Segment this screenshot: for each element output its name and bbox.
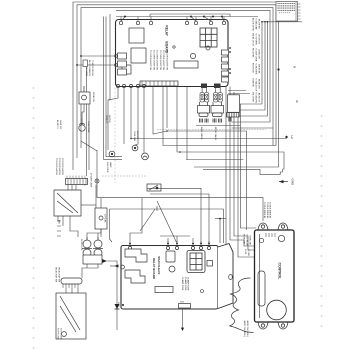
ignitor block 1 xyxy=(201,84,207,89)
wire fan 1 xyxy=(167,131,247,230)
svg-text:40 WATT LAMP: 40 WATT LAMP xyxy=(90,173,93,188)
wire board left stubs xyxy=(81,55,114,57)
component box F xyxy=(95,208,107,229)
svg-text:BK-RD GY: BK-RD GY xyxy=(258,93,260,103)
svg-text:TO SELECTOR: TO SELECTOR xyxy=(255,78,257,92)
label TS1 xyxy=(87,121,89,133)
wire diode run xyxy=(116,263,118,330)
svg-text:LIGHT SW: LIGHT SW xyxy=(59,120,61,129)
wire fan 3 xyxy=(174,145,276,147)
svg-text:TO OVEN LIGHT SW: TO OVEN LIGHT SW xyxy=(166,50,168,70)
wire bus 3 xyxy=(81,8,273,148)
maxi bottom connector xyxy=(179,302,191,309)
wire latch out xyxy=(57,216,59,221)
wire maxi feed 3 xyxy=(176,236,178,244)
wire drop C xyxy=(234,92,255,250)
wire lamp stem xyxy=(97,150,263,221)
maxi board outline xyxy=(121,244,233,310)
wire maxi right stub xyxy=(219,218,221,243)
svg-text:GY-RD CN3: GY-RD CN3 xyxy=(249,235,251,245)
node N xyxy=(277,66,296,71)
control inner edge xyxy=(259,234,261,318)
maxi board title xyxy=(152,256,161,279)
svg-text:RD-BK WH: RD-BK WH xyxy=(258,79,260,89)
label latch text xyxy=(55,158,64,175)
svg-text:COOL FAN: COOL FAN xyxy=(133,131,136,142)
svg-text:TO BLK WIRE AT: TO BLK WIRE AT xyxy=(269,202,272,219)
svg-text:15 AMP FUSE: 15 AMP FUSE xyxy=(181,277,184,291)
control ear TR xyxy=(278,223,288,230)
maxi small circle xyxy=(201,290,204,293)
wire mid drop 2 xyxy=(123,88,125,144)
svg-text:TO BK WIRE: TO BK WIRE xyxy=(255,63,257,75)
wire bus 7 xyxy=(232,21,268,116)
svg-text:N: N xyxy=(293,66,297,68)
relay board text block xyxy=(149,50,168,70)
svg-text:GY-RD WH: GY-RD WH xyxy=(258,49,260,59)
wire T3 top xyxy=(97,233,99,240)
wire left diag xyxy=(81,141,97,151)
svg-text:MOTOR: MOTOR xyxy=(136,131,138,139)
svg-text:BAKE VALVE: BAKE VALVE xyxy=(200,127,203,140)
wire fan 6 xyxy=(194,166,279,168)
component circle small xyxy=(173,46,175,48)
svg-text:GRD: GRD xyxy=(117,302,119,307)
svg-text:TO BROIL RD-WH: TO BROIL RD-WH xyxy=(91,60,93,76)
maxi relay K4 xyxy=(166,251,175,262)
svg-text:BK-WH OR RD: BK-WH OR RD xyxy=(252,18,254,32)
maxi transformer xyxy=(187,251,205,273)
wire to maxi 2 xyxy=(192,238,194,241)
label far left xyxy=(56,120,61,129)
wire squiggle xyxy=(230,278,254,333)
wire fan 5 xyxy=(186,159,244,161)
svg-text:TO DOOR LATCH: TO DOOR LATCH xyxy=(55,158,58,175)
svg-text:BK-WH RD: BK-WH RD xyxy=(258,19,260,29)
wire fan 2 xyxy=(131,138,287,140)
transformer T3 xyxy=(93,237,103,257)
svg-text:GY-BK RD: GY-BK RD xyxy=(252,78,254,88)
relay board bottom terminals xyxy=(116,84,145,87)
wire bus N xyxy=(77,5,276,158)
ignitor module P3 xyxy=(214,88,218,102)
wire drop A xyxy=(225,87,227,247)
maxi label bar xyxy=(155,287,173,293)
relay board left connector xyxy=(115,53,127,75)
wire diag 1 xyxy=(140,209,155,231)
svg-text:40W OVEN: 40W OVEN xyxy=(106,162,108,173)
ignitor module P2 xyxy=(205,88,209,102)
node L2 xyxy=(285,136,294,140)
svg-text:3c: 3c xyxy=(295,100,299,104)
wire J3 to door xyxy=(65,288,67,293)
svg-text:BU-WH OR: BU-WH OR xyxy=(252,63,254,73)
svg-text:TO LWR OVEN: TO LWR OVEN xyxy=(255,48,257,62)
wire top jogs xyxy=(191,17,196,22)
wire S1 run3 xyxy=(147,188,201,243)
maxi heatsink 1 xyxy=(125,249,147,262)
wire fan 7 xyxy=(203,169,283,175)
svg-text:SWITCH: SWITCH xyxy=(108,115,110,123)
control circle big xyxy=(267,300,287,320)
svg-text:L1 RD-BK: L1 RD-BK xyxy=(104,214,106,223)
svg-text:RELAY BOARD: RELAY BOARD xyxy=(152,258,156,279)
label door box xyxy=(70,302,76,317)
wire left pair xyxy=(104,17,123,160)
svg-text:TO OVEN LIGHT SW: TO OVEN LIGHT SW xyxy=(159,50,161,70)
terminal block TB1 xyxy=(261,2,302,23)
wire run y211b xyxy=(156,206,158,211)
lamp PL1 xyxy=(109,151,115,157)
wire bus 6 xyxy=(232,21,266,110)
svg-text:TO L1 BK-WH: TO L1 BK-WH xyxy=(246,234,248,247)
wire I to diode xyxy=(107,261,117,263)
latch box xyxy=(54,190,81,216)
switch S1 xyxy=(147,184,161,191)
svg-text:(MOD CLK WHL): (MOD CLK WHL) xyxy=(246,321,248,337)
maxi top terminals xyxy=(128,241,210,250)
diode CR1 xyxy=(115,304,120,309)
label F col xyxy=(104,214,106,223)
svg-text:TO CN1 PIN: TO CN1 PIN xyxy=(255,92,257,103)
svg-text:OR-WH GY: OR-WH GY xyxy=(258,34,260,45)
control circle small xyxy=(278,235,284,241)
wire fan 3b xyxy=(272,128,274,146)
wire crease xyxy=(114,88,116,183)
svg-text:OVEN TEMP: OVEN TEMP xyxy=(87,121,89,133)
oven door box xyxy=(56,293,86,339)
control box outline xyxy=(255,230,295,322)
label control left xyxy=(243,234,251,247)
svg-text:CONTROL: CONTROL xyxy=(278,263,282,280)
maxi circle xyxy=(169,266,175,272)
wire bus L1 xyxy=(73,2,279,170)
wire to maxi 1 xyxy=(130,198,142,241)
wire mid drop 5 xyxy=(143,88,145,153)
label valves xyxy=(200,127,217,141)
label ctl left xyxy=(244,249,249,256)
svg-text:WH-RD BK: WH-RD BK xyxy=(258,64,260,74)
wire left v2 xyxy=(88,92,90,170)
relay board outline xyxy=(116,20,229,87)
svg-text:WH-OR BU: WH-OR BU xyxy=(252,92,254,102)
wire J2 to latch xyxy=(67,185,69,191)
node lamp xyxy=(95,179,99,183)
svg-text:TO DOOR LATCH: TO DOOR LATCH xyxy=(58,158,61,175)
ground GRD xyxy=(279,179,295,187)
connector J2 xyxy=(66,176,88,185)
label PL xyxy=(105,115,110,124)
ignitor module P4 xyxy=(218,88,222,102)
wire drop B xyxy=(230,87,255,247)
svg-text:TO TOP BRN: TO TOP BRN xyxy=(255,33,257,45)
svg-text:(MOD CLK WHL): (MOD CLK WHL) xyxy=(243,321,245,337)
wire DS1 to TS1 xyxy=(82,104,84,118)
svg-text:TO CN2: TO CN2 xyxy=(247,249,249,256)
label mod clk xyxy=(243,321,248,337)
control top marks xyxy=(266,233,275,237)
wire mid drop 10 xyxy=(186,87,188,160)
gas valve V2 xyxy=(211,102,224,123)
svg-text:TO P2 CN3: TO P2 CN3 xyxy=(57,328,59,340)
svg-text:GRD: GRD xyxy=(291,179,295,187)
wire left v3 xyxy=(108,14,110,100)
svg-text:TO BLK WIRE AT: TO BLK WIRE AT xyxy=(266,202,269,219)
relay board title xyxy=(165,25,169,53)
svg-text:LAMP: LAMP xyxy=(109,162,112,168)
wire fan 4 xyxy=(180,152,284,169)
wire S1 run4 xyxy=(150,194,209,244)
ignitor block 2 xyxy=(214,84,221,89)
wire board top feed xyxy=(116,16,258,19)
wire mid drop 1 xyxy=(108,88,118,150)
label DS1 xyxy=(92,92,94,102)
svg-text:RD-WH BK: RD-WH BK xyxy=(252,48,254,58)
wire valve bus xyxy=(196,125,240,127)
svg-text:TO OVEN LIGHT SW: TO OVEN LIGHT SW xyxy=(149,50,151,70)
label board left text xyxy=(85,60,93,76)
svg-text:MAXI CLEAN: MAXI CLEAN xyxy=(157,256,161,274)
wire left col 3 xyxy=(82,257,98,278)
wire mid drop 6 xyxy=(153,87,167,135)
label T2 xyxy=(80,239,82,251)
spark module xyxy=(227,95,240,122)
connector J3 xyxy=(61,278,82,288)
motor M1 xyxy=(142,153,149,160)
lamp PL2 xyxy=(132,145,138,151)
wire left col 4 xyxy=(100,229,102,237)
maxi heatsink 2 xyxy=(125,270,145,283)
transformer T1 xyxy=(200,28,217,47)
maxi text block xyxy=(181,277,190,291)
maxi small square xyxy=(207,261,213,267)
label control top xyxy=(263,202,272,219)
resistor block xyxy=(174,61,198,68)
wire left col 2 xyxy=(86,257,88,268)
label 3c xyxy=(295,100,299,104)
svg-text:SELECTOR SW: SELECTOR SW xyxy=(55,267,57,282)
component box I xyxy=(83,255,107,264)
relay K2 xyxy=(131,48,146,63)
ignitor module P1 xyxy=(200,88,204,102)
wire drop D xyxy=(238,96,255,257)
wire latch right xyxy=(81,204,96,206)
relay board top terminals xyxy=(119,18,225,25)
wire mid drop 3 xyxy=(130,88,132,139)
wire drop E xyxy=(241,104,257,228)
relay board right connector xyxy=(222,47,231,82)
gas valve V1 xyxy=(198,102,210,123)
wire board right stub xyxy=(228,90,246,92)
svg-text:TO DOOR LATCH: TO DOOR LATCH xyxy=(61,158,64,175)
control slot xyxy=(258,271,265,306)
wire colour labels xyxy=(252,18,260,103)
svg-text:BK-GY CLEAN SW: BK-GY CLEAN SW xyxy=(88,60,91,76)
wire mid drop 9 xyxy=(177,87,180,153)
wire maxi feed 2 xyxy=(167,238,169,244)
wire mid drop 8 xyxy=(166,87,168,129)
wire F down xyxy=(110,209,113,242)
label selector xyxy=(55,267,60,282)
wire S1 run2 xyxy=(110,209,224,243)
svg-text:L1 BK: L1 BK xyxy=(244,249,246,255)
wire maxi feed 1 xyxy=(160,235,190,237)
wire F top xyxy=(100,198,102,208)
label PL2 xyxy=(106,162,112,173)
svg-text:15 AMP FUSE: 15 AMP FUSE xyxy=(184,277,187,291)
svg-text:TO BLK WIRE AT: TO BLK WIRE AT xyxy=(263,202,266,219)
relay K3 xyxy=(122,65,131,74)
svg-text:TO P2 CN3: TO P2 CN3 xyxy=(60,328,62,340)
relay K1 xyxy=(129,28,144,43)
wire F to T xyxy=(87,229,101,240)
door switch DS1 xyxy=(79,86,90,104)
svg-text:DOOR SW: DOOR SW xyxy=(92,92,94,102)
maxi side oval xyxy=(229,274,233,279)
latch pins xyxy=(57,221,61,236)
wire diag 2 xyxy=(157,201,176,242)
wire bus 5 xyxy=(232,21,263,104)
svg-text:SELECTOR SW: SELECTOR SW xyxy=(58,267,60,282)
control ear BR xyxy=(278,322,288,329)
wire mid drop 7 xyxy=(163,87,174,146)
wire left v1 xyxy=(86,67,88,176)
wire left col 1 xyxy=(95,185,97,209)
maxi GRD corner xyxy=(117,302,124,307)
svg-text:DOOR LOCK: DOOR LOCK xyxy=(80,239,82,251)
wire S1 dash xyxy=(102,175,147,177)
control ear TL xyxy=(258,223,268,230)
label bottom left xyxy=(57,328,62,340)
relay board bottom strip xyxy=(140,81,178,86)
svg-text:L2: L2 xyxy=(290,136,294,140)
svg-text:TO OVEN LIGHT SW: TO OVEN LIGHT SW xyxy=(152,50,154,70)
thermostat TS1 xyxy=(79,118,85,131)
component D1 xyxy=(190,53,195,58)
wire bus 4 xyxy=(116,10,270,122)
interlock box xyxy=(83,60,88,67)
transformer T2 xyxy=(82,237,92,257)
label lamp col xyxy=(83,173,93,188)
component D2 xyxy=(206,46,210,50)
svg-text:BK-RD TO: BK-RD TO xyxy=(56,120,58,129)
maxi left terminal xyxy=(110,265,124,269)
wire fan 8 xyxy=(157,128,266,130)
svg-text:TO OVEN LIGHT SW: TO OVEN LIGHT SW xyxy=(162,50,164,70)
wire mid drop 4 xyxy=(135,88,138,145)
svg-text:WH-BK OR GY: WH-BK OR GY xyxy=(252,33,254,47)
svg-text:RD-BK CN2: RD-BK CN2 xyxy=(243,234,245,244)
label latch pins xyxy=(58,220,60,224)
control ear BL xyxy=(258,322,268,329)
svg-text:TO DBL LINE: TO DBL LINE xyxy=(255,18,257,30)
wire maxi down xyxy=(182,309,184,330)
control circle small2 xyxy=(259,238,263,242)
svg-text:TO OVEN LIGHT SW: TO OVEN LIGHT SW xyxy=(156,50,158,70)
svg-text:RELAY: RELAY xyxy=(165,25,169,36)
svg-text:15 AMP FUSE: 15 AMP FUSE xyxy=(187,277,190,291)
label M1 xyxy=(133,131,138,142)
